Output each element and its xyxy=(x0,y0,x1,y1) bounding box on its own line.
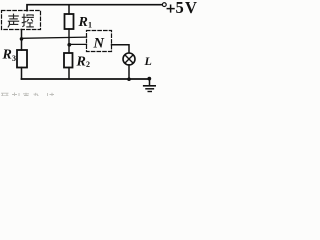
svg-text:1: 1 xyxy=(88,21,92,30)
svg-text:L: L xyxy=(144,54,152,68)
svg-text:2: 2 xyxy=(86,60,90,69)
svg-text:N: N xyxy=(93,36,105,52)
svg-text:R: R xyxy=(78,15,88,30)
svg-text:5V: 5V xyxy=(176,0,199,17)
svg-text:3: 3 xyxy=(12,54,16,63)
svg-text:R: R xyxy=(76,55,86,70)
svg-text:R: R xyxy=(2,48,12,63)
